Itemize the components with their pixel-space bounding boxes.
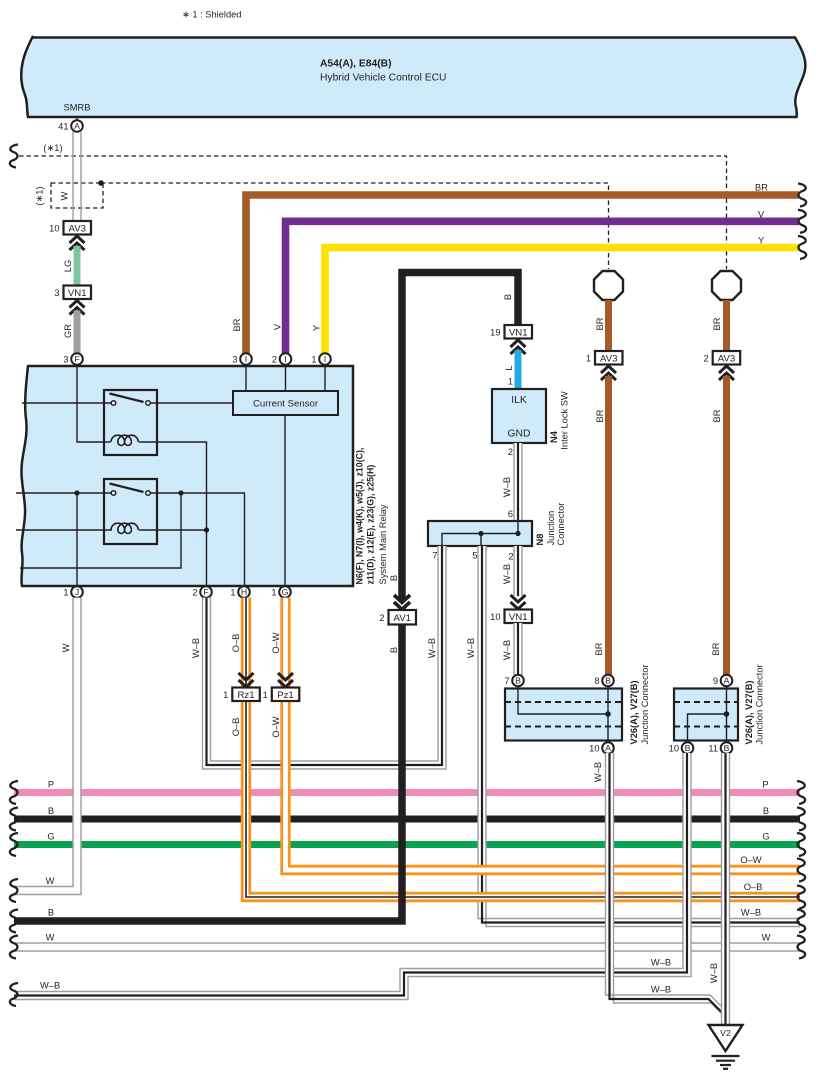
connector 1 Rz1 xyxy=(223,673,260,701)
svg-text:2: 2 xyxy=(508,551,513,561)
dashed shield line to left octagon xyxy=(101,183,609,269)
svg-text:W–B: W–B xyxy=(427,638,437,658)
svg-text:W–B: W–B xyxy=(502,640,512,660)
svg-text:BR: BR xyxy=(711,642,721,655)
svg-text:9: 9 xyxy=(713,676,718,686)
svg-text:AV1: AV1 xyxy=(394,613,411,624)
wire L to ILK xyxy=(504,350,518,389)
relay R1 switch xyxy=(110,394,151,406)
pin 2 F bottom xyxy=(192,586,211,598)
wire W-B N8 pin 5 to right bus xyxy=(466,546,805,933)
svg-text:BR: BR xyxy=(712,409,722,422)
wire BR 1AV3 to pin 8B xyxy=(594,376,609,675)
svg-text:7: 7 xyxy=(432,550,437,560)
wire BR 2AV3 to pin 9A xyxy=(711,376,727,675)
svg-text:W: W xyxy=(60,191,70,200)
svg-text:W–B: W–B xyxy=(593,762,603,782)
svg-text:N8: N8 xyxy=(535,534,545,546)
svg-text:V26(A), V27(B): V26(A), V27(B) xyxy=(629,680,639,744)
connector 19 VN1 xyxy=(490,325,532,354)
wire W-B from pin 10A joining ground run xyxy=(593,753,730,1022)
relay name label rotated xyxy=(355,448,389,585)
svg-text:B: B xyxy=(503,294,513,300)
wire BR octagon to 2 AV3 xyxy=(712,300,727,352)
svg-text:6: 6 xyxy=(508,509,513,519)
junction connector V26(A) V27(B) left box xyxy=(505,664,650,744)
node: dot switch2 tap xyxy=(178,490,183,495)
svg-text:A: A xyxy=(74,121,80,131)
svg-text:N6(F), N7(I), w4(K), w5(J), z1: N6(F), N7(I), w4(K), w5(J), z10(C), xyxy=(355,448,365,585)
svg-text:LG: LG xyxy=(63,260,73,272)
svg-text:W: W xyxy=(762,932,771,942)
svg-text:F: F xyxy=(74,354,79,364)
svg-text:B: B xyxy=(515,676,521,686)
svg-text:W–B: W–B xyxy=(466,638,476,658)
svg-text:GR: GR xyxy=(63,324,73,338)
svg-text:GND: GND xyxy=(508,429,531,440)
svg-text:V: V xyxy=(273,323,283,330)
svg-text:Inter Lock SW: Inter Lock SW xyxy=(560,391,570,450)
svg-text:10: 10 xyxy=(589,743,599,753)
svg-text:O–B: O–B xyxy=(744,882,763,892)
svg-text:3: 3 xyxy=(63,354,68,364)
svg-text:Y: Y xyxy=(312,325,322,331)
System Main Relay box N6/N7 xyxy=(21,366,353,586)
svg-text:W: W xyxy=(46,932,55,942)
svg-text:41: 41 xyxy=(58,122,68,132)
wire W-B 10 VN1 to pin 7B xyxy=(502,623,522,675)
svg-text:W: W xyxy=(61,643,71,652)
svg-text:B: B xyxy=(389,647,399,653)
svg-text:BR: BR xyxy=(755,183,768,193)
connector 1 Pz1 xyxy=(263,673,300,701)
dashed shield line (*1) upper xyxy=(10,143,727,269)
svg-text:Rz1: Rz1 xyxy=(237,690,254,701)
svg-text:W–B: W–B xyxy=(502,477,512,497)
svg-text:Junction Connector: Junction Connector xyxy=(755,664,765,744)
relay R1 component box xyxy=(104,390,157,455)
ECU A54(A) E84(B) Hybrid Vehicle Control ECU box xyxy=(21,36,805,117)
svg-text:2: 2 xyxy=(508,447,513,457)
svg-text:1: 1 xyxy=(263,690,268,700)
shield octagon right xyxy=(712,271,741,300)
relay R1 coil xyxy=(111,435,138,445)
wire B thick from AV1 riser to 19 VN1 xyxy=(389,273,518,601)
svg-text:N4: N4 xyxy=(549,430,559,443)
wire O-B pin 1H through Rz1 to right bus xyxy=(231,598,805,909)
svg-text:∗ 1 : Shielded: ∗ 1 : Shielded xyxy=(182,10,241,20)
wire BR octagon to 1 AV3 xyxy=(595,300,609,352)
svg-text:A54(A), E84(B): A54(A), E84(B) xyxy=(320,59,392,70)
relay internal wire: switch2 row xyxy=(16,492,111,494)
svg-text:AV3: AV3 xyxy=(69,223,86,234)
pin 11 B bottom xyxy=(708,742,732,754)
svg-text:1: 1 xyxy=(508,376,513,386)
svg-text:1: 1 xyxy=(63,587,68,597)
relay internal wire: coil2 row xyxy=(16,529,112,531)
svg-text:Junction Connector: Junction Connector xyxy=(640,664,650,744)
svg-text:B: B xyxy=(685,743,691,753)
svg-text:(∗1): (∗1) xyxy=(43,143,62,153)
svg-text:BR: BR xyxy=(594,642,604,655)
svg-text:A: A xyxy=(724,676,730,686)
svg-text:G: G xyxy=(47,831,54,841)
svg-text:7: 7 xyxy=(504,676,509,686)
wire O-W pin 1G through Pz1 to right bus xyxy=(271,598,805,882)
bus B black xyxy=(10,806,805,831)
svg-text:System Main Relay: System Main Relay xyxy=(378,504,388,584)
squiggle right V xyxy=(798,210,806,233)
pin 8 B xyxy=(594,675,613,687)
pin 10 A bottom xyxy=(589,742,614,754)
switch N4 ILK Inter Lock SW box xyxy=(492,389,570,450)
svg-text:3: 3 xyxy=(54,288,59,298)
svg-text:AV3: AV3 xyxy=(600,353,617,364)
node: shield junction dot xyxy=(98,180,104,186)
wire W shielded from pin A to AV3 xyxy=(73,132,81,221)
svg-text:VN1: VN1 xyxy=(509,612,528,623)
Current Sensor box xyxy=(233,391,338,415)
dashed shield box around W wire xyxy=(35,183,104,208)
svg-text:I: I xyxy=(324,354,326,364)
svg-text:AV3: AV3 xyxy=(718,353,735,364)
svg-text:V2: V2 xyxy=(720,1028,731,1038)
svg-text:F: F xyxy=(203,587,208,597)
svg-text:1: 1 xyxy=(223,690,228,700)
node: dot coil2 to 2F xyxy=(204,527,209,532)
connector 1 AV3 xyxy=(586,351,623,380)
svg-text:BR: BR xyxy=(712,317,722,330)
svg-text:J: J xyxy=(75,587,79,597)
svg-text:A: A xyxy=(605,743,611,753)
relay internal wire: switch1 row xyxy=(22,402,111,404)
svg-text:W–B: W–B xyxy=(741,908,761,918)
svg-text:1: 1 xyxy=(586,353,591,363)
svg-text:O–W: O–W xyxy=(740,855,761,865)
junction connector N8 box xyxy=(428,503,566,562)
svg-text:V26(A), V27(B): V26(A), V27(B) xyxy=(744,680,754,744)
svg-text:B: B xyxy=(724,743,730,753)
svg-text:11: 11 xyxy=(708,743,718,753)
wire W-B from pin 10B to left edge with jog xyxy=(10,753,691,1006)
svg-text:G: G xyxy=(282,587,289,597)
svg-text:B: B xyxy=(763,806,769,816)
bus P pink xyxy=(10,779,805,804)
bus W full width xyxy=(10,932,805,958)
squiggle right BR xyxy=(798,184,806,207)
relay R2 component box xyxy=(104,479,157,544)
svg-text:W–B: W–B xyxy=(709,963,719,983)
svg-text:W–B: W–B xyxy=(191,638,201,658)
ground V2 xyxy=(709,1025,743,1069)
svg-text:SMRB: SMRB xyxy=(64,103,91,113)
squiggle right Y xyxy=(798,236,806,259)
svg-text:Pz1: Pz1 xyxy=(277,690,294,701)
svg-text:10: 10 xyxy=(669,743,679,753)
connector 2 AV3 xyxy=(704,351,741,380)
relay R2 coil xyxy=(111,523,138,533)
wire W-B from pin 11B to ground V2 xyxy=(709,753,730,1025)
svg-text:O–B: O–B xyxy=(231,718,241,737)
svg-text:W: W xyxy=(46,876,55,886)
wire W-B ILK GND to N8 pin 6 xyxy=(502,443,522,521)
svg-text:Connector: Connector xyxy=(556,503,566,546)
pin 1 H bottom xyxy=(230,586,249,598)
svg-text:W–B: W–B xyxy=(502,564,512,584)
relay internal wire: 1J riser xyxy=(76,493,78,588)
svg-text:G: G xyxy=(762,831,769,841)
svg-text:W–B: W–B xyxy=(651,957,671,967)
svg-text:VN1: VN1 xyxy=(509,327,528,338)
pin 1 J bottom xyxy=(63,586,82,598)
svg-text:3: 3 xyxy=(232,354,237,364)
svg-text:Current Sensor: Current Sensor xyxy=(253,398,319,409)
wire B thick from AV1 to left B bus xyxy=(10,625,402,933)
pin 7 B xyxy=(504,675,523,687)
pin 1 G bottom xyxy=(271,586,290,598)
connector 10 AV3 xyxy=(49,221,91,250)
wire W-B pin 2F to N8 pin 7 xyxy=(191,546,446,769)
svg-text:W–B: W–B xyxy=(40,981,60,991)
wire V to pin 2I xyxy=(273,209,800,353)
relay internal wire: tap to left edge xyxy=(20,493,181,568)
wire Y to pin 1I xyxy=(312,236,800,354)
svg-text:H: H xyxy=(241,587,247,597)
svg-text:1: 1 xyxy=(311,354,316,364)
pin 9 A xyxy=(713,675,732,687)
pin 10 B bottom xyxy=(669,742,694,754)
svg-text:V: V xyxy=(758,209,765,219)
pin 3 I top xyxy=(232,353,251,365)
pin 41 A of ECU xyxy=(58,117,83,132)
connector 3 VN1 xyxy=(54,286,91,315)
svg-text:2: 2 xyxy=(379,613,384,623)
wire BR from ECU area to pin 3I xyxy=(232,183,799,354)
svg-text:1: 1 xyxy=(230,587,235,597)
svg-text:8: 8 xyxy=(594,676,599,686)
svg-text:BR: BR xyxy=(232,318,242,331)
svg-text:ILK: ILK xyxy=(511,395,527,406)
wire GR xyxy=(63,311,77,354)
svg-text:O–B: O–B xyxy=(231,634,241,653)
pin 1 I top xyxy=(311,353,330,365)
svg-text:BR: BR xyxy=(595,317,605,330)
svg-text:BR: BR xyxy=(595,409,605,422)
svg-text:19: 19 xyxy=(490,327,500,337)
svg-text:Hybrid Vehicle Control ECU: Hybrid Vehicle Control ECU xyxy=(320,73,446,84)
wire W from pin J to left edge xyxy=(10,598,81,902)
wire LG xyxy=(63,246,77,286)
relay R2 switch xyxy=(110,484,151,496)
svg-text:I: I xyxy=(245,354,247,364)
svg-text:2: 2 xyxy=(272,354,277,364)
svg-text:W–B: W–B xyxy=(651,985,671,995)
svg-text:10: 10 xyxy=(49,223,59,233)
svg-text:Junction: Junction xyxy=(546,511,556,546)
wire W-B N8 pin2 to 10 VN1 xyxy=(502,546,526,609)
shield octagon left xyxy=(594,271,623,300)
svg-text:O–W: O–W xyxy=(271,716,281,737)
junction connector V26(A) V27(B) right box xyxy=(674,664,765,744)
bus G green xyxy=(10,831,805,856)
svg-text:P: P xyxy=(762,779,768,789)
svg-text:5: 5 xyxy=(472,550,477,560)
svg-text:2: 2 xyxy=(192,587,197,597)
svg-text:(∗1): (∗1) xyxy=(35,186,45,205)
svg-text:L: L xyxy=(504,365,514,370)
svg-text:P: P xyxy=(48,779,54,789)
svg-text:10: 10 xyxy=(490,612,500,622)
pin 3 F top xyxy=(63,353,82,365)
svg-text:VN1: VN1 xyxy=(68,288,87,299)
node: dot J riser xyxy=(74,490,79,495)
pin 2 I top xyxy=(272,353,291,365)
svg-text:B: B xyxy=(48,806,54,816)
svg-text:Y: Y xyxy=(758,236,764,246)
relay internal wires: I pins to current sensor xyxy=(245,365,247,391)
svg-text:1: 1 xyxy=(271,587,276,597)
svg-text:2: 2 xyxy=(704,353,709,363)
connector 2 AV1 xyxy=(379,610,416,625)
svg-text:z11(D), z12(E), z23(G), z25(H): z11(D), z12(E), z23(G), z25(H) xyxy=(366,465,376,585)
connector 10 VN1 xyxy=(490,610,532,624)
svg-text:B: B xyxy=(48,907,54,917)
relay internal wire: current sensor to 1G xyxy=(284,415,286,588)
relay internal wire: 3F to coil1 to 2F xyxy=(77,365,111,442)
wire B thick arrow into 2 AV1 xyxy=(394,595,410,610)
svg-text:B: B xyxy=(605,676,611,686)
svg-text:I: I xyxy=(284,354,286,364)
svg-text:O–W: O–W xyxy=(271,632,281,653)
svg-text:B: B xyxy=(389,575,399,581)
